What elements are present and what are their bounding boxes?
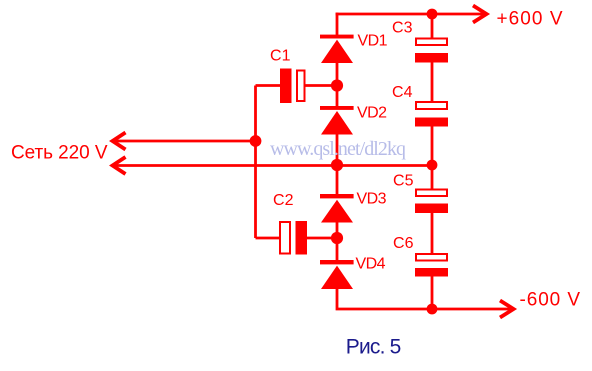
capacitor C4 [415,102,448,127]
wire C5 to C6 [431,213,434,254]
wire C1 to node A [306,84,338,87]
diode VD1 [320,35,354,63]
wire top +600V rail [336,13,485,16]
wire mains line 2 [113,164,432,167]
arrow mains line 1 [113,133,126,150]
wire left corner to C2 [256,237,280,240]
diode VD2 [320,106,354,135]
svg-text:C6: C6 [393,235,414,252]
svg-text:C5: C5 [393,173,414,190]
wire left vertical C1-C2 branch [254,86,257,239]
wire vertical top of diode chain [336,13,339,36]
svg-text:VD2: VD2 [357,105,387,122]
wire VD4 to bottom rail corner [337,289,513,309]
wire C3 to C4 [431,63,434,103]
wire VD1 to node A [336,63,339,86]
wire node C to VD4 [336,238,339,261]
wire C2 to node C [307,237,337,240]
svg-text:VD3: VD3 [357,190,387,207]
node C junction dot (C2 / VD3 / VD4) [331,232,343,244]
capacitor C1 [280,69,305,104]
node G junction dot bottom rail / C6 [427,304,438,315]
arrow mains line 2 [113,157,126,174]
svg-text:+600 V: +600 V [497,8,563,29]
svg-text:VD1: VD1 [358,32,388,49]
arrow +600V [473,6,487,23]
wire node F to C3 [431,14,434,39]
wire node E stub to C1 [256,84,281,87]
capacitor C5 [415,190,448,214]
node B junction dot (mains line 2 / VD2 / VD3) [331,159,343,171]
wire mains line 1 [113,140,256,143]
node F junction dot top rail / C3 [427,9,438,20]
node D junction dot (mains line 2 / C4 / C5) [427,160,438,171]
diode VD4 [320,260,354,289]
node E junction dot mains line 1 / left vertical [250,135,262,147]
capacitor C6 [415,254,448,277]
wire node D to C5 [431,165,434,190]
svg-text:Сеть 220 V: Сеть 220 V [11,143,108,164]
svg-text:C4: C4 [392,84,413,101]
capacitor C2 [280,221,307,255]
svg-text:C1: C1 [270,48,291,65]
svg-text:www.qsl.net/dl2kq: www.qsl.net/dl2kq [270,138,406,160]
svg-text:Рис. 5: Рис. 5 [346,335,402,358]
wire node A to VD2 [336,86,339,107]
svg-text:VD4: VD4 [356,256,386,273]
svg-text:C3: C3 [392,20,413,37]
wire VD3 to node C [336,223,339,239]
diode VD3 [320,194,354,223]
svg-text:-600 V: -600 V [520,290,581,311]
arrow -600V [500,301,514,318]
wire node B to VD3 [336,165,339,195]
capacitor C3 [415,39,448,63]
node A junction dot (C1 / VD1 / VD2) [331,79,343,91]
wire C6 to node G [431,277,434,310]
wire VD2 to node B [336,135,339,166]
svg-text:C2: C2 [273,192,294,209]
wire C4 to node D [431,127,434,166]
